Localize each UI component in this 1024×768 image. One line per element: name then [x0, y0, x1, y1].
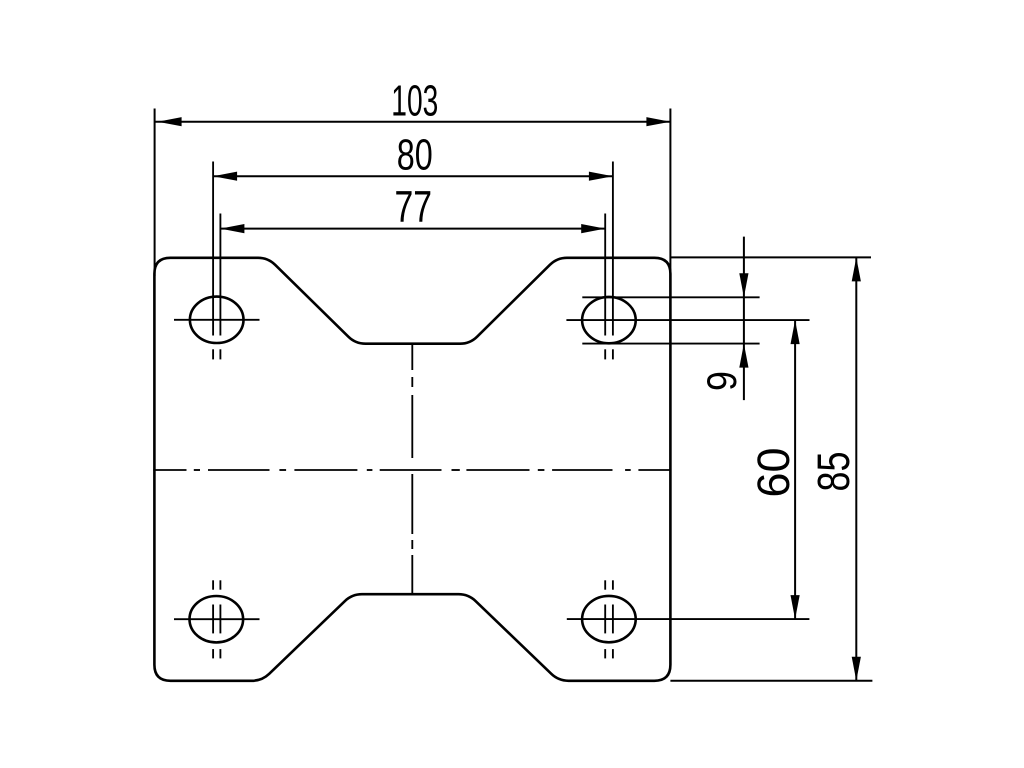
- dim 77 right arrowhead: [581, 224, 605, 233]
- H2 bottom tangent extension line: [582, 343, 759, 345]
- H3 bolt line inside right: [219, 605, 221, 634]
- hole H4 bottom-right: [582, 596, 636, 642]
- dim 60 dimension line: [794, 320, 796, 619]
- dim 103 right extension line: [669, 109, 671, 281]
- H2 bolt line 77: [604, 214, 606, 336]
- dim 9 lower arrowhead: [739, 344, 748, 368]
- H3 bolt dash below left: [212, 649, 214, 658]
- dim 77 dimension line: [220, 228, 605, 230]
- dim 60 bottom arrowhead: [791, 595, 800, 619]
- dim 103 left arrowhead: [158, 117, 182, 126]
- H3 bolt dash above right: [219, 580, 221, 589]
- H3 bolt dash above left: [212, 580, 214, 589]
- svg-text:103: 103: [391, 77, 438, 126]
- H4 bolt dash below right: [612, 649, 614, 658]
- hole H1 top-left: [190, 297, 244, 343]
- svg-text:9: 9: [698, 371, 745, 391]
- H2 top tangent extension line: [582, 296, 759, 298]
- svg-text:85: 85: [808, 452, 859, 492]
- H1 bolt line 80: [212, 162, 214, 336]
- H4 bolt line inside right: [612, 605, 614, 634]
- dim 103 right arrowhead: [646, 117, 670, 126]
- dim 80 right arrowhead: [589, 172, 613, 181]
- H1 centerline dash below left: [212, 349, 214, 359]
- dim 85 bottom arrowhead: [852, 657, 861, 681]
- H4 bolt dash below left: [604, 649, 606, 658]
- H3 bolt dash below right: [219, 649, 221, 658]
- svg-text:77: 77: [395, 183, 433, 232]
- H2 horizontal centerline: [566, 319, 809, 321]
- dim 9 dimension line: [743, 237, 745, 401]
- H1 bolt line 77: [219, 214, 221, 336]
- svg-text:60: 60: [748, 448, 799, 498]
- dim 9 upper arrowhead: [739, 273, 748, 297]
- hole H3 bottom-left: [190, 596, 244, 642]
- dim 103 left extension line: [154, 109, 156, 277]
- H1 horizontal centerline: [174, 319, 260, 321]
- dim 77 left arrowhead: [220, 224, 244, 233]
- dim 85 top arrowhead: [852, 257, 861, 281]
- H4 bolt line inside left: [604, 605, 606, 634]
- H4 horizontal centerline: [567, 618, 810, 620]
- H4 bolt dash above left: [604, 580, 606, 589]
- dim 80 dimension line: [213, 175, 613, 177]
- bottom edge extension line: [670, 680, 872, 682]
- H2 centerline dash below right: [612, 349, 614, 359]
- H2 centerline dash below left: [604, 349, 606, 359]
- top edge extension line: [670, 256, 871, 258]
- dim 85 dimension line: [855, 257, 857, 680]
- H3 horizontal centerline: [174, 618, 260, 620]
- H1 centerline dash below right: [219, 349, 221, 359]
- svg-text:80: 80: [397, 131, 433, 180]
- H4 bolt dash above right: [612, 580, 614, 589]
- vertical main centerline: [411, 344, 413, 595]
- horizontal main centerline: [153, 469, 670, 471]
- H3 bolt line inside left: [212, 605, 214, 634]
- plate outline: [154, 258, 670, 681]
- hole H2 top-right: [582, 297, 636, 343]
- dim 103 dimension line: [155, 121, 671, 123]
- dim 80 left arrowhead: [213, 172, 237, 181]
- H2 bolt line 80: [612, 162, 614, 336]
- dim 60 top arrowhead: [791, 320, 800, 344]
